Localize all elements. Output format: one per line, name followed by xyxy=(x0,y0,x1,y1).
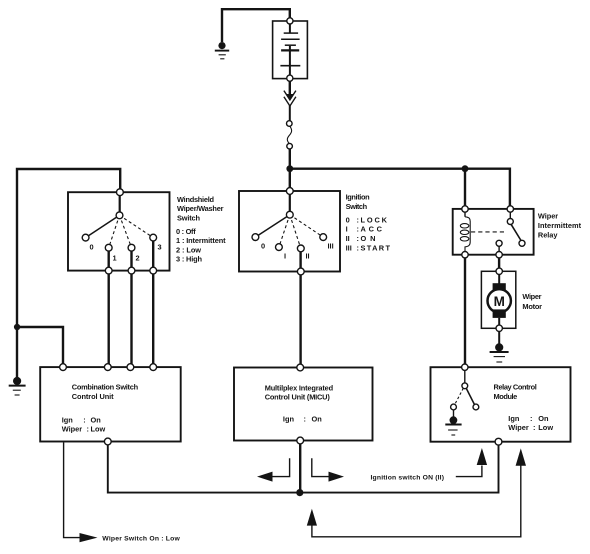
svg-text:Switch: Switch xyxy=(346,202,368,211)
wiper switch contact 3 xyxy=(150,234,157,241)
relay switch pivot xyxy=(507,219,513,225)
arrow left (signal to CSCU side) xyxy=(257,458,290,481)
ignition switch dashed positions I,II,III xyxy=(279,215,323,249)
svg-text:II: II xyxy=(306,252,310,261)
wiper switch contact 2 xyxy=(128,244,135,251)
svg-text:Switch: Switch xyxy=(177,213,200,222)
relay control module box xyxy=(431,367,571,442)
wire label to up-arrow into RCM xyxy=(456,466,482,477)
wire wiper contact 3 to CSCU xyxy=(152,241,154,366)
node lower bus junction xyxy=(296,489,303,496)
down arrow with double chevron (battery feed) xyxy=(284,82,296,107)
RCM terminal top xyxy=(462,364,468,370)
wire RCM loop to lower bus arrow xyxy=(312,465,521,537)
wire MICU to lower bus xyxy=(299,444,301,493)
relay terminals bottom xyxy=(462,252,503,258)
wire wiper switch common to left rail xyxy=(17,169,120,379)
svg-text:0: 0 xyxy=(261,242,265,251)
wire fuse to main bus and to ignition switch xyxy=(289,149,291,189)
svg-text:Combination Switch: Combination Switch xyxy=(72,383,139,392)
wire ignition top terminal to common pole xyxy=(289,194,291,212)
svg-text:Control Unit (MICU): Control Unit (MICU) xyxy=(265,393,331,402)
svg-text:M: M xyxy=(494,294,505,309)
svg-text:1: 1 xyxy=(113,254,117,263)
battery box xyxy=(273,21,308,79)
wiper switch terminal top xyxy=(117,189,124,196)
motor terminal bottom xyxy=(496,325,502,331)
ground G4 (RCM) xyxy=(445,416,461,435)
svg-text:Wiper: Wiper xyxy=(522,292,541,301)
CSCU terminal bottom xyxy=(104,438,111,445)
ground G1 (top left) xyxy=(215,42,229,59)
wire CSCU to wiper-switch-on arrow xyxy=(64,443,80,538)
svg-text:Ignition switch ON (II): Ignition switch ON (II) xyxy=(371,474,445,481)
CSCU terminals top xyxy=(60,364,157,371)
wire bus to relay coil xyxy=(464,168,466,206)
wire battery positive to ground (top) xyxy=(222,9,290,42)
node battery feed / bus xyxy=(286,165,293,172)
arrow up into RCM xyxy=(477,448,487,465)
relay dashed actuation link xyxy=(471,231,507,233)
wire relay to wiper motor xyxy=(498,258,500,269)
svg-text:3 : High: 3 : High xyxy=(176,255,202,264)
arrow up into lower bus xyxy=(307,509,317,526)
MICU terminal bottom xyxy=(297,437,304,444)
label relay control module xyxy=(494,382,554,432)
ignition switch blade (to 0) xyxy=(255,215,289,237)
motor terminal top xyxy=(496,268,502,274)
RCM contact left xyxy=(451,404,457,410)
MICU terminal top xyxy=(297,364,304,371)
windshield wiper/washer switch box xyxy=(68,192,170,270)
combination switch control unit box xyxy=(40,367,181,441)
svg-text:0 : Off: 0 : Off xyxy=(176,227,196,236)
wiper motor M1 xyxy=(488,274,511,325)
node left branch xyxy=(14,324,20,330)
relay blade end contact xyxy=(519,240,525,246)
svg-text:I: I xyxy=(284,252,286,261)
ignition terminal top xyxy=(286,188,293,195)
ignition switch box xyxy=(239,191,340,272)
svg-text:Module: Module xyxy=(494,392,518,401)
label windshield wiper/washer switch xyxy=(176,195,226,264)
wire wiper contact 1 to CSCU xyxy=(107,251,109,366)
svg-text:0: 0 xyxy=(90,243,94,252)
wiper switch contact 0 xyxy=(82,234,89,241)
RCM terminal bottom xyxy=(495,438,502,445)
wire branch to combination switch control unit xyxy=(17,327,63,365)
wire wiper top terminal to common pole xyxy=(119,195,121,213)
relay terminals top xyxy=(462,206,514,212)
arrow up into RCM (second) xyxy=(516,448,526,465)
ignition terminal bottom xyxy=(297,268,304,275)
ground G3 (motor) xyxy=(490,343,509,362)
svg-text:Wiper/Washer: Wiper/Washer xyxy=(177,204,224,213)
ignition contact I xyxy=(276,244,283,251)
wire battery junction to relay rail xyxy=(290,169,510,207)
wire RCM contact to ground xyxy=(453,410,455,417)
wire ignition II to MICU xyxy=(299,251,301,365)
node relay feed / bus xyxy=(462,165,469,172)
relay coil L xyxy=(460,212,470,252)
wiper switch dashed positions 1,2,3 xyxy=(109,215,154,247)
wire motor to ground xyxy=(498,332,500,345)
relay center contact xyxy=(496,240,502,246)
ignition contact II xyxy=(297,245,304,252)
svg-text:3: 3 xyxy=(158,243,162,252)
ground G2 (left) xyxy=(9,377,26,395)
svg-text:III: III xyxy=(328,242,334,251)
svg-text:Motor: Motor xyxy=(522,302,542,311)
battery cells xyxy=(280,24,300,75)
label ignition switch xyxy=(346,193,391,253)
arrow right (wiper switch on) xyxy=(80,533,98,542)
svg-text:Intermittemt: Intermittemt xyxy=(538,221,582,230)
svg-text:Wiper Switch On : Low: Wiper Switch On : Low xyxy=(102,535,180,542)
wiper switch blade (to 0) xyxy=(86,215,120,237)
arrow right (signal to RCM side) xyxy=(312,458,344,481)
svg-text:2: 2 xyxy=(136,254,140,263)
ignition contact 0 xyxy=(252,234,259,241)
svg-text:Ign:On: Ign:On xyxy=(283,415,322,424)
wiper switch terminals bottom xyxy=(105,267,156,274)
svg-text:Windshield: Windshield xyxy=(177,195,214,204)
wire relay to relay control module xyxy=(464,258,466,366)
svg-text:Relay: Relay xyxy=(538,230,558,239)
ignition common pole xyxy=(286,211,293,218)
svg-text:Multilplex Integrated: Multilplex Integrated xyxy=(265,383,334,392)
svg-text:2 : Low: 2 : Low xyxy=(176,245,201,254)
wire chevron to fuse xyxy=(289,106,291,121)
svg-text:Ignition: Ignition xyxy=(346,193,370,202)
wiper intermittent relay box xyxy=(453,209,534,255)
svg-text:1 : Intermittent: 1 : Intermittent xyxy=(176,236,226,245)
svg-text:Wiper: Wiper xyxy=(538,211,558,220)
wiper switch contact 1 xyxy=(105,244,112,251)
battery terminal top xyxy=(287,18,293,24)
RCM switch xyxy=(455,370,475,404)
label wiper intermittent relay xyxy=(538,211,582,239)
battery terminal bottom xyxy=(287,75,293,81)
label combination switch control unit xyxy=(62,383,139,434)
multiplex integrated control unit box xyxy=(234,368,373,441)
ignition contact III xyxy=(320,234,327,241)
wire wiper contact 2 to CSCU xyxy=(130,251,132,366)
wire CSCU to lower bus to RCM xyxy=(108,445,499,493)
RCM switch pivot xyxy=(462,383,468,389)
svg-text:Relay Control: Relay Control xyxy=(494,382,537,391)
fuse / circuit breaker xyxy=(287,121,293,149)
wiper switch common pole xyxy=(116,212,123,219)
svg-text:Control Unit: Control Unit xyxy=(72,392,114,401)
relay switch blade xyxy=(499,212,521,252)
wiper motor box xyxy=(481,271,515,328)
label wiper motor xyxy=(522,292,542,311)
label multiplex integrated control unit xyxy=(265,383,334,423)
RCM contact right xyxy=(473,404,479,410)
